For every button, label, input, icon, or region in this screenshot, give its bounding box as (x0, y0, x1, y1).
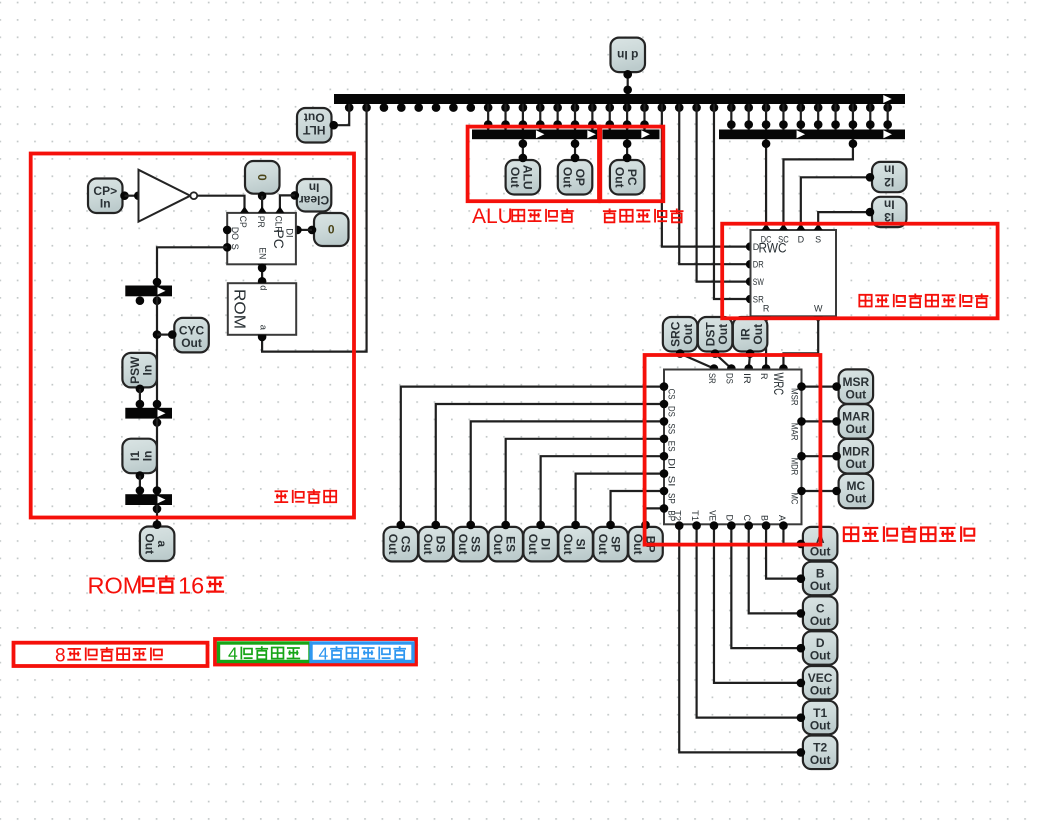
svg-text:S: S (230, 244, 240, 250)
subcircuit PC (program counter) (223, 206, 296, 270)
svg-text:In: In (309, 181, 320, 195)
subcircuit RWC (register read/write controller) (751, 224, 837, 323)
wire WRC MDR to MDR Out (797, 452, 836, 461)
wire splitter1 down chain (153, 296, 162, 408)
annotation box program counter (600, 127, 663, 202)
pin CP In (88, 179, 129, 214)
pin constant 0 (DI) (308, 213, 349, 246)
pin CS Out (384, 521, 419, 562)
wire WRC MC to MC Out (797, 487, 836, 496)
svg-text:SS: SS (667, 423, 677, 434)
wire to CYC Out (157, 334, 172, 336)
pin BP Out (628, 521, 663, 562)
svg-text:Out: Out (304, 111, 325, 125)
wire WRC SR to SRC Out (680, 354, 718, 373)
register bus splitter (719, 104, 905, 139)
wire I1 In to splitter3 (136, 476, 162, 495)
svg-text:Out: Out (810, 683, 831, 697)
wire splitter3 to a Out (153, 505, 162, 529)
svg-text:SI: SI (667, 476, 677, 487)
main data bus (334, 94, 905, 112)
svg-text:R: R (763, 304, 770, 314)
svg-text:A: A (777, 515, 787, 521)
label 取指系统 (274, 490, 336, 503)
wire WRC D to D Out (727, 521, 801, 648)
svg-text:a: a (258, 325, 268, 331)
pin SI Out (558, 521, 593, 562)
pin T2 Out (797, 736, 838, 770)
svg-text:CS: CS (667, 389, 677, 400)
annotation box register bus (645, 355, 821, 545)
svg-text:S: S (815, 235, 821, 245)
svg-text:Out: Out (810, 649, 831, 663)
svg-text:Out: Out (846, 457, 867, 471)
annotation box register read/write controller (722, 224, 997, 319)
svg-text:D: D (725, 515, 735, 522)
svg-text:Out: Out (142, 533, 156, 554)
svg-text:ALU: ALU (472, 205, 513, 228)
wire WRC ES to ES Out (506, 435, 669, 525)
svg-text:ROM: ROM (231, 289, 248, 329)
wire WRC B to B Out (762, 521, 801, 578)
wire RWC W to WRC W (779, 316, 818, 373)
pin MC Out (832, 474, 873, 509)
svg-text:C: C (742, 515, 752, 522)
wire splitter to RWC DC (762, 139, 771, 230)
svg-text:W: W (814, 304, 823, 314)
pin SRC Out (663, 317, 698, 358)
svg-text:0: 0 (255, 174, 269, 181)
pin DST Out (698, 317, 733, 358)
wire 0 to PC PR (261, 196, 263, 213)
svg-text:SR: SR (753, 294, 764, 304)
wire WRC T1 to T1 Out (692, 521, 801, 717)
label ALU运算单元 (472, 205, 574, 228)
svg-text:Out: Out (681, 324, 695, 345)
svg-text:4: 4 (319, 643, 329, 663)
wire inverter to PC CP (197, 196, 244, 213)
annotation box ALU unit (468, 127, 599, 202)
svg-text:SP: SP (667, 493, 677, 504)
svg-text:In: In (100, 196, 111, 210)
wire CP In to inverter (125, 191, 143, 200)
svg-text:In: In (140, 451, 154, 462)
svg-text:VE: VE (707, 510, 717, 521)
wire WRC T2 to T2 Out (675, 521, 801, 752)
wire I2 In to RWC D (801, 177, 870, 230)
pin ALU Out (506, 154, 540, 195)
pin B Out (797, 562, 838, 596)
svg-text:d: d (258, 285, 268, 290)
pin D Out (797, 631, 838, 665)
wire ROM address to bus (258, 104, 367, 352)
svg-text:In: In (140, 365, 154, 376)
svg-text:Out: Out (491, 534, 505, 555)
pin PSW In (122, 353, 156, 393)
wire WRC MAR to MAR Out (797, 417, 836, 426)
wire WRC SP to SP Out (611, 487, 669, 525)
wire splitter to PC Out (623, 139, 632, 158)
pin I3 In (866, 197, 907, 227)
pin MAR Out (832, 404, 873, 439)
svg-text:Out: Out (526, 534, 540, 555)
subcircuit WRC (register write bus controller) (664, 370, 802, 525)
wire PSW In to splitter2 (136, 389, 162, 409)
pin OP Out (558, 154, 593, 195)
wire WRC BP to BP Out (646, 504, 669, 525)
label ROM地址16位 (88, 573, 225, 599)
wire WRC CS to CS Out (401, 382, 669, 525)
pin a Out (140, 520, 175, 561)
PC bus splitter (603, 104, 660, 139)
svg-text:PR: PR (256, 216, 266, 228)
pin SS Out (453, 521, 488, 562)
wire HLT to bus (334, 104, 350, 125)
pin A Out (797, 527, 838, 561)
svg-text:d In: d In (617, 48, 638, 62)
wire bus to RWC left pin 3 (697, 104, 755, 286)
svg-text:IR: IR (742, 373, 752, 384)
svg-text:MSR: MSR (789, 388, 800, 406)
annotation box 取指系统 (fetch system) (31, 154, 354, 518)
svg-text:Out: Out (561, 534, 575, 555)
splitter 2 (125, 408, 172, 427)
wire splitter to ALU Out (519, 139, 528, 158)
wire WRC DS to DS Out (436, 400, 669, 525)
wire bus to RWC left pin 1 (662, 104, 755, 251)
wire splitter to RWC SC (783, 139, 857, 230)
pin DS Out (419, 521, 454, 562)
wire I3 In to RWC S (818, 212, 870, 230)
svg-text:MC: MC (789, 493, 800, 505)
svg-text:MDR: MDR (789, 458, 800, 476)
svg-text:SW: SW (753, 277, 764, 287)
wire WRC SI to SI Out (576, 469, 669, 525)
svg-text:Out: Out (386, 534, 400, 555)
pin VEC Out (797, 666, 838, 700)
svg-text:Out: Out (846, 387, 867, 401)
splitter 1 (125, 286, 172, 306)
label 寄存器读写总线 (844, 526, 975, 542)
svg-text:WRC: WRC (771, 373, 787, 396)
svg-text:RWC: RWC (759, 241, 787, 256)
wire PC EN to ROM d (258, 264, 267, 286)
svg-text:B: B (759, 515, 769, 521)
svg-text:Out: Out (846, 492, 867, 506)
pin IR Out (733, 317, 768, 358)
pin d In (611, 38, 646, 79)
svg-text:Out: Out (810, 718, 831, 732)
pin HLT Out (297, 108, 338, 143)
memory ROM (228, 277, 296, 342)
svg-text:Out: Out (421, 534, 435, 555)
pin MDR Out (832, 439, 873, 474)
svg-text:ES: ES (667, 441, 677, 452)
svg-text:T2: T2 (673, 510, 683, 521)
svg-text:Out: Out (810, 753, 831, 767)
wire PC S to splitter chain (153, 247, 228, 286)
svg-text:EN: EN (257, 247, 267, 259)
label 寄存器读写控制器 (859, 294, 988, 308)
svg-text:Out: Out (560, 167, 574, 188)
svg-text:SR: SR (707, 373, 717, 384)
svg-text:Out: Out (181, 336, 202, 350)
wire RWC R to WRC R (762, 316, 771, 373)
svg-text:DS: DS (724, 373, 734, 384)
annotation box 8-bit instruction register (14, 643, 208, 667)
pin MSR Out (832, 369, 873, 404)
wire WRC IR to IR Out (744, 354, 753, 373)
wire 0 to PC DI (293, 226, 312, 235)
svg-text:Out: Out (456, 534, 470, 555)
pin I2 In (866, 162, 907, 192)
svg-text:MAR: MAR (789, 423, 800, 441)
svg-text:DS: DS (667, 406, 677, 417)
wire splitter2 down (156, 419, 158, 495)
wire WRC DS to DST Out (715, 354, 736, 373)
svg-text:Out: Out (751, 324, 765, 345)
pin T1 Out (797, 701, 838, 735)
svg-text:PC: PC (271, 230, 286, 249)
svg-text:Out: Out (612, 167, 626, 188)
svg-text:DR: DR (753, 260, 764, 270)
svg-text:0: 0 (328, 223, 335, 237)
wire WRC MSR to MSR Out (797, 382, 836, 391)
svg-text:4: 4 (228, 643, 238, 663)
wire WRC VEC to VEC Out (710, 521, 801, 683)
svg-text:16: 16 (178, 573, 204, 599)
pin I1 In (122, 439, 156, 480)
annotation box 4位周期信号 (blue) (311, 643, 413, 663)
svg-text:D: D (798, 235, 805, 245)
annotation box 4位状态字 (green) (219, 643, 311, 663)
pin C Out (797, 596, 838, 630)
wire Clear In to PC CLR (280, 195, 295, 213)
pin constant 0 (PR) (245, 161, 280, 200)
svg-text:DO: DO (230, 227, 240, 240)
wire bus to RWC left pin 4 (714, 104, 755, 303)
pin CYC Out (168, 318, 209, 353)
wire WRC SS to SS Out (471, 417, 669, 525)
ALU bus splitter (472, 104, 598, 139)
pin PC Out (610, 154, 645, 195)
svg-text:Out: Out (810, 579, 831, 593)
svg-text:DI: DI (667, 458, 677, 469)
svg-text:8: 8 (55, 645, 66, 666)
wire d-In to bus (623, 70, 632, 94)
svg-text:ROM: ROM (88, 573, 143, 599)
wire splitter to OP Out (571, 139, 580, 158)
svg-text:In: In (884, 162, 895, 176)
label 程序计数器 (603, 209, 684, 223)
svg-text:In: In (884, 197, 895, 211)
svg-text:Out: Out (508, 167, 522, 188)
inverter (NOT gate) (139, 170, 198, 222)
svg-text:Out: Out (716, 324, 730, 345)
splitter 3 (125, 494, 172, 513)
svg-text:R: R (759, 373, 769, 380)
pin SP Out (593, 521, 628, 562)
pin Clear In (291, 179, 332, 212)
svg-text:Out: Out (846, 422, 867, 436)
svg-text:Out: Out (596, 534, 610, 555)
annotation outer box status/cycle (215, 639, 416, 665)
wire bus to RWC left pin 2 (679, 104, 754, 269)
svg-text:T1: T1 (690, 510, 700, 521)
pin ES Out (488, 521, 523, 562)
svg-text:Out: Out (810, 614, 831, 628)
wire WRC C to C Out (744, 521, 800, 613)
wire WRC A to A Out (779, 521, 801, 544)
pin DI Out (523, 521, 558, 562)
wire WRC DI to DI Out (541, 452, 669, 525)
